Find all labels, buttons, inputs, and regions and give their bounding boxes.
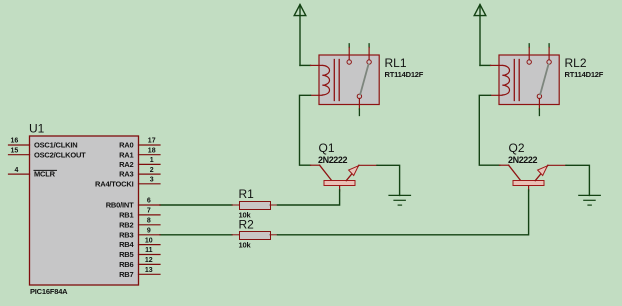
wire Q1 emitter to ground — [377, 165, 400, 195]
wire R1 to Q1 base — [278, 190, 340, 205]
RL2 switch blade — [540, 65, 548, 95]
svg-text:RA4/TOCKI: RA4/TOCKI — [95, 179, 134, 188]
transistor Q2 — [500, 165, 567, 191]
svg-text:R1: R1 — [239, 187, 255, 201]
svg-text:8: 8 — [147, 218, 151, 225]
RL1 common pin — [357, 94, 361, 98]
svg-text:6: 6 — [147, 198, 151, 205]
pin 2 RA3 — [119, 167, 160, 179]
svg-text:RL2: RL2 — [565, 56, 587, 70]
wire RL2 coil bottom to Q2 collector — [479, 95, 500, 165]
wire RB0 to R1 — [160, 204, 232, 206]
svg-text:RT114D12F: RT114D12F — [565, 70, 604, 79]
svg-text:9: 9 — [147, 228, 151, 235]
wire Q2 emitter to ground — [566, 165, 589, 195]
svg-text:1: 1 — [150, 157, 154, 164]
svg-text:MCLR: MCLR — [34, 170, 56, 179]
svg-text:RA2: RA2 — [119, 160, 133, 169]
pin 17 RA0 — [119, 138, 160, 150]
svg-text:16: 16 — [11, 138, 19, 145]
RL2 core bars — [513, 60, 515, 101]
svg-text:OSC1/CLKIN: OSC1/CLKIN — [34, 141, 77, 150]
pin 16 OSC1/CLKIN — [9, 138, 78, 150]
svg-text:OSC2/CLKOUT: OSC2/CLKOUT — [34, 150, 86, 159]
svg-text:2N2222: 2N2222 — [508, 155, 538, 165]
svg-text:RB4: RB4 — [119, 240, 134, 249]
svg-text:15: 15 — [11, 147, 19, 154]
svg-text:10k: 10k — [239, 240, 252, 249]
wire RL1 coil bottom to Q1 collector — [300, 95, 311, 165]
relay RL2 — [491, 44, 560, 116]
svg-text:RT114D12F: RT114D12F — [385, 70, 424, 79]
svg-text:3: 3 — [150, 177, 154, 184]
svg-text:RB6: RB6 — [119, 260, 133, 269]
RL1 switch blade — [360, 65, 368, 95]
svg-text:17: 17 — [148, 138, 156, 145]
svg-text:2N2222: 2N2222 — [318, 155, 348, 165]
pin 11 RB5 — [119, 247, 160, 259]
resistor R2 — [232, 232, 278, 240]
pin 12 RB6 — [119, 257, 160, 269]
svg-text:RB7: RB7 — [119, 270, 133, 279]
svg-text:18: 18 — [148, 147, 156, 154]
svg-text:10: 10 — [145, 237, 153, 244]
wire VP2 to RL2 coil top — [480, 64, 491, 66]
ground GND1 — [389, 195, 411, 205]
svg-text:RA1: RA1 — [119, 150, 133, 159]
pin 1 RA2 — [119, 157, 160, 169]
svg-text:7: 7 — [147, 208, 151, 215]
svg-text:RB1: RB1 — [119, 211, 133, 220]
RL1 coil — [322, 65, 329, 95]
svg-text:Q1: Q1 — [319, 141, 335, 155]
relay RL1 — [311, 44, 380, 116]
IC U1 PIC16F84A body — [30, 136, 139, 285]
RL1 NO contact pin — [368, 44, 370, 48]
svg-text:RB3: RB3 — [119, 230, 133, 239]
svg-text:RB0/INT: RB0/INT — [106, 201, 134, 210]
power terminal VP1 — [294, 5, 306, 66]
pin 7 RB1 — [119, 208, 160, 220]
pin 9 RB3 — [119, 228, 160, 240]
RL2 NO contact pin — [548, 44, 550, 48]
resistor R1 — [232, 202, 278, 210]
svg-text:4: 4 — [15, 167, 19, 174]
svg-text:13: 13 — [145, 267, 153, 274]
svg-text:RA3: RA3 — [119, 170, 133, 179]
svg-text:RA0: RA0 — [119, 141, 133, 150]
pin 4 MCLR — [9, 167, 57, 179]
svg-text:RB5: RB5 — [119, 250, 133, 259]
pin 10 RB4 — [119, 237, 160, 249]
wire VP1 to RL1 coil top — [300, 64, 311, 66]
svg-text:Q2: Q2 — [509, 141, 525, 155]
transistor Q1 — [311, 165, 378, 191]
RL2 coil — [502, 65, 509, 95]
power terminal VP2 — [474, 5, 486, 66]
svg-text:11: 11 — [145, 247, 153, 254]
svg-text:PIC16F84A: PIC16F84A — [30, 287, 68, 296]
pin 8 RB2 — [119, 218, 160, 230]
pin 13 RB7 — [119, 267, 160, 279]
svg-text:2: 2 — [150, 167, 154, 174]
svg-text:RB2: RB2 — [119, 220, 133, 229]
RL1 coil pin stubs — [311, 64, 323, 66]
ground GND2 — [579, 195, 601, 205]
RL2 coil pin stubs — [491, 64, 503, 66]
pin 15 OSC2/CLKOUT — [9, 147, 87, 159]
svg-text:RL1: RL1 — [385, 56, 407, 70]
svg-text:12: 12 — [145, 257, 153, 264]
pin 6 RB0/INT — [106, 198, 160, 210]
svg-text:U1: U1 — [29, 122, 45, 136]
RL1 NC contact pin — [348, 44, 350, 48]
pin 3 RA4/TOCKI — [95, 177, 160, 189]
pin 18 RA1 — [119, 147, 160, 159]
wire RB3 to R2 — [160, 234, 232, 236]
RL1 core bars — [333, 60, 335, 101]
wire R2 to Q2 base — [278, 190, 529, 235]
RL2 common pin — [537, 94, 541, 98]
RL2 NC contact pin — [528, 44, 530, 48]
svg-text:R2: R2 — [239, 218, 255, 232]
